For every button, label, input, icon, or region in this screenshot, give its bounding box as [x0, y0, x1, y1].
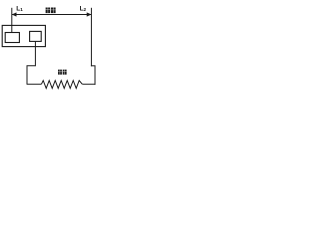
right extension wire: [90, 8, 92, 67]
wire from resistor to bottom-right corner: [82, 83, 95, 85]
right vertical wire: [94, 66, 96, 85]
wire from right terminal down: [34, 41, 36, 66]
right jog wire: [91, 65, 96, 67]
label 電源 (power source) drawn as glyph blobs: [46, 8, 56, 14]
dimension line L1-L2: [12, 14, 91, 16]
left arrowhead: [12, 12, 17, 16]
background: [0, 0, 100, 100]
resistor zigzag (load): [41, 81, 82, 89]
wire jog left: [27, 66, 35, 84]
label 負荷 (load) drawn as glyph blobs: [58, 70, 67, 75]
svg-text:L1: L1: [16, 5, 23, 12]
right terminal rectangle: [30, 31, 42, 41]
power supply box: [2, 25, 45, 46]
right arrowhead: [87, 12, 92, 16]
left terminal rectangle: [5, 33, 19, 43]
bottom wire to resistor: [27, 83, 42, 85]
svg-text:L2: L2: [80, 5, 87, 12]
left extension wire: [11, 8, 13, 33]
